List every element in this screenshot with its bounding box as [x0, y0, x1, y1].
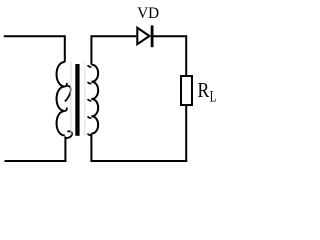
wire secondary bottom stub: [90, 134, 92, 163]
diode VD cathode bar: [151, 25, 154, 47]
svg-text:R: R: [198, 78, 210, 102]
diode VD triangle: [137, 28, 149, 45]
wire cathode to right corner: [152, 35, 186, 37]
wire top-left input: [4, 35, 65, 37]
wire top (anode side): [91, 35, 136, 37]
svg-text:L: L: [210, 89, 217, 106]
transformer core ghost line left: [70, 62, 72, 135]
primary winding junction curl 2: [65, 86, 71, 102]
wire bottom-left input: [5, 160, 67, 162]
primary winding junction curl 1: [65, 83, 67, 87]
transformer primary winding T1: [57, 62, 65, 136]
wire right vertical bottom: [185, 105, 187, 162]
svg-text:VD: VD: [137, 5, 159, 22]
wire primary bottom stub: [64, 137, 66, 163]
transformer core ghost line right: [84, 62, 86, 135]
primary winding junction curl 3: [65, 108, 67, 111]
primary winding bottom curl: [65, 131, 72, 138]
wire bottom (secondary return): [91, 160, 187, 162]
wire secondary top stub: [90, 35, 92, 64]
wire primary top stub: [64, 35, 66, 62]
wire right vertical top: [185, 35, 187, 76]
transformer secondary winding: [91, 65, 98, 134]
secondary winding junction tails: [88, 65, 92, 67]
transformer core: [75, 64, 79, 136]
resistor RL body: [181, 76, 192, 105]
